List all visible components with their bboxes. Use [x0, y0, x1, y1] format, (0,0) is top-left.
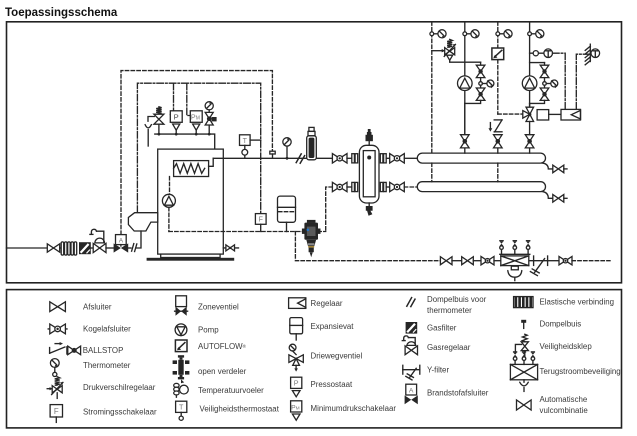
kogelafsluiter supply right	[386, 157, 390, 159]
svg-text:P: P	[294, 379, 299, 388]
legend: gasregelaar	[402, 336, 417, 355]
balancing valve set circuit 1	[465, 62, 494, 103]
legend: driewegventiel	[289, 344, 303, 371]
svg-text:Dompelbuis: Dompelbuis	[540, 320, 582, 329]
legend: expansievat	[290, 318, 303, 334]
capillary wall stat to regelaar (dash-dot)	[576, 54, 590, 109]
schematic frame	[7, 22, 622, 283]
svg-text:F: F	[54, 407, 59, 416]
fill line kogelafsluiter 1	[481, 257, 494, 265]
fill line continues (dashed)	[572, 260, 610, 262]
svg-text:Toepassingsschema: Toepassingsschema	[5, 7, 118, 19]
stromingsschakelaar F-box	[255, 214, 266, 225]
circuit 2 branch: temperatuurvoeler	[530, 52, 545, 54]
valve actuator	[537, 110, 549, 120]
legend: elastische verbinding	[514, 297, 533, 308]
y-filter on fill line	[530, 256, 548, 276]
svg-text:Terugstroombeveiliging: Terugstroombeveiliging	[540, 367, 621, 376]
boiler body	[158, 149, 224, 254]
legend frame	[7, 290, 622, 428]
control boundary inner (dash-dot)	[137, 83, 260, 213]
svg-text:Gasregelaar: Gasregelaar	[427, 343, 471, 352]
legend: terugstroombeveiliging	[510, 352, 537, 392]
svg-text:T: T	[179, 403, 184, 412]
svg-text:AUTOFLOW®: AUTOFLOW®	[198, 342, 247, 351]
svg-text:Drukverschilregelaar: Drukverschilregelaar	[83, 383, 156, 392]
gas regulator with vent	[93, 243, 106, 252]
return manifold outlet valve	[542, 192, 553, 199]
svg-text:Minimumdrukschakelaar: Minimumdrukschakelaar	[311, 404, 397, 413]
kogelafsluiter return left	[332, 182, 347, 191]
riser 1 control line (dashed)	[431, 22, 433, 153]
thermometers on risers	[430, 32, 434, 36]
legend: veiligheidsklep	[515, 334, 528, 358]
regelaar (controller)	[561, 109, 581, 120]
legend: y-filter	[403, 365, 420, 380]
legend: minimumdrukschakelaar	[291, 401, 302, 412]
boiler pedestal and base	[161, 254, 220, 257]
brandstofafsluiter (fuel shut-off, A)	[116, 235, 127, 245]
return manifold	[417, 182, 545, 192]
legend: autoflow	[175, 340, 187, 352]
legend: gasfilter	[406, 322, 418, 334]
legend: dompelbuis	[521, 320, 526, 323]
svg-text:PM: PM	[291, 404, 300, 411]
open verdeler flanges	[352, 154, 355, 163]
dompelbuis voor thermometer (slashes)	[296, 154, 301, 163]
return run to boiler (dashed)	[169, 231, 305, 233]
boiler drain valve	[223, 247, 238, 249]
pressostaat P	[170, 111, 182, 123]
legend: open verdeler	[173, 355, 190, 383]
riser 2 supply pipe	[464, 22, 466, 134]
svg-text:Dompelbuis voor: Dompelbuis voor	[427, 295, 487, 304]
balancing valve set circuit 2	[530, 63, 558, 104]
hx outlet connector	[209, 158, 214, 166]
gas supply pipe	[7, 247, 48, 249]
svg-text:A: A	[409, 387, 414, 394]
fill line valve 2	[462, 257, 474, 265]
instrument manifold pipe	[155, 134, 215, 149]
legend: brandstofafsluiter	[406, 384, 417, 395]
control wire to min-druk-schakelaar	[187, 83, 191, 115]
control wire to pressostaat	[170, 83, 173, 114]
gas shut-off valve	[47, 244, 59, 252]
legend: stromingsschakelaar	[50, 405, 62, 417]
svg-text:Temperatuurvoeler: Temperatuurvoeler	[198, 386, 264, 395]
control boundary outer (dashed)	[121, 71, 272, 235]
fill line kogelafsluiter 2	[548, 260, 559, 262]
drain cock at bottom	[368, 203, 370, 206]
svg-text:F: F	[259, 217, 263, 224]
svg-text:Automatische: Automatische	[540, 395, 588, 404]
svg-text:Afsluiter: Afsluiter	[83, 302, 112, 311]
dompelbuis on supply pipe	[270, 151, 275, 154]
svg-text:T: T	[243, 138, 248, 145]
terugstroombeveiliging (backflow preventer)	[500, 241, 530, 281]
svg-text:Regelaar: Regelaar	[311, 299, 343, 308]
gas filter (black with stripe)	[79, 242, 91, 254]
legend: dompelbuis voor thermometer	[407, 298, 412, 307]
svg-text:Gasfilter: Gasfilter	[427, 323, 457, 332]
svg-text:Pomp: Pomp	[198, 325, 219, 334]
legend: zoneventiel	[176, 296, 187, 307]
svg-text:thermometer: thermometer	[427, 306, 472, 315]
wall thermostat	[585, 44, 599, 65]
svg-text:Y-filter: Y-filter	[427, 365, 449, 374]
veiligheidsklep (boiler safety valve)	[148, 107, 164, 134]
legend: kogelafsluiter	[48, 328, 67, 330]
svg-text:Veiligheidsthermostaat: Veiligheidsthermostaat	[200, 404, 280, 413]
svg-text:vulcombinatie: vulcombinatie	[540, 406, 589, 415]
supply manifold	[417, 153, 545, 163]
svg-text:Veiligheidsklep: Veiligheidsklep	[540, 342, 593, 351]
legend: pomp	[175, 324, 187, 336]
three-way valve	[523, 107, 534, 121]
elastic connection (bellows)	[61, 242, 76, 255]
pipe break flanges	[132, 244, 134, 252]
expansievat	[278, 196, 296, 222]
svg-text:Expansievat: Expansievat	[311, 322, 355, 331]
burner	[128, 213, 157, 231]
legend: drukverschilregelaar	[47, 377, 63, 399]
vuilafscheider (black separator)	[302, 220, 321, 257]
svg-text:Zoneventiel: Zoneventiel	[198, 303, 239, 312]
supply manifold outlet valve	[542, 163, 553, 169]
veiligheidsthermostaat T-box	[240, 135, 251, 146]
svg-text:Brandstofafsluiter: Brandstofafsluiter	[427, 389, 489, 398]
svg-text:Kogelafsluiter: Kogelafsluiter	[83, 325, 131, 334]
dompelbuis / tundish cup	[145, 125, 151, 128]
svg-text:P: P	[174, 113, 179, 122]
legend: temperatuurvoeler	[174, 383, 189, 397]
legend: pressostaat	[291, 377, 302, 388]
boiler pump	[162, 194, 175, 207]
supply pipe from boiler to open verdeler	[213, 157, 332, 159]
control line to 3-way valve (dashed)	[498, 113, 523, 115]
capillary to regelaar (dash-dot)	[553, 53, 566, 109]
legend: veiligheidsthermostaat	[176, 401, 187, 412]
svg-text:Stromingsschakelaar: Stromingsschakelaar	[83, 407, 157, 416]
manometer with gauge valve	[205, 102, 213, 110]
riser 4 supply pipe	[529, 22, 531, 107]
svg-text:A: A	[119, 237, 124, 244]
legend: BALLSTOP	[50, 342, 81, 355]
fill line tee (dashed)	[295, 232, 440, 261]
minimumdrukschakelaar PM	[190, 111, 202, 123]
legend: regelaar	[289, 298, 306, 309]
automatic air vent on top	[368, 141, 370, 145]
svg-text:Pressostaat: Pressostaat	[311, 380, 353, 389]
drukverschilregelaar circuit 1	[432, 39, 481, 62]
riser shut-off valves above supply manifold	[464, 149, 466, 153]
legend: afsluiter	[50, 302, 66, 312]
gas pipe to burner	[136, 231, 141, 248]
zone valve (spring-return) on riser 3	[489, 120, 503, 132]
fill line valve 1	[440, 257, 452, 265]
svg-text:Elastische verbinding: Elastische verbinding	[540, 297, 615, 306]
svg-text:Driewegventiel: Driewegventiel	[311, 352, 363, 361]
kogelafsluiter supply left	[332, 154, 347, 163]
pump circuit 2	[529, 103, 531, 107]
heat exchanger	[174, 161, 209, 177]
legend: automatische vulcombinatie	[517, 400, 532, 410]
open verdeler body	[359, 145, 379, 203]
return pipe: verdeler to boiler (dashed)	[386, 186, 390, 188]
svg-text:BALLSTOP: BALLSTOP	[83, 346, 124, 355]
manometer on supply pipe	[286, 157, 289, 160]
riser 3 control line (dashed)	[497, 22, 499, 48]
svg-text:Thermometer: Thermometer	[83, 361, 131, 370]
legend: thermometer	[50, 359, 59, 368]
regelaar / autoflow box on riser 3	[492, 48, 504, 60]
thermometer pocket (bottle)	[309, 127, 314, 131]
pump circuit 1	[464, 103, 466, 133]
svg-text:open verdeler: open verdeler	[198, 367, 247, 376]
